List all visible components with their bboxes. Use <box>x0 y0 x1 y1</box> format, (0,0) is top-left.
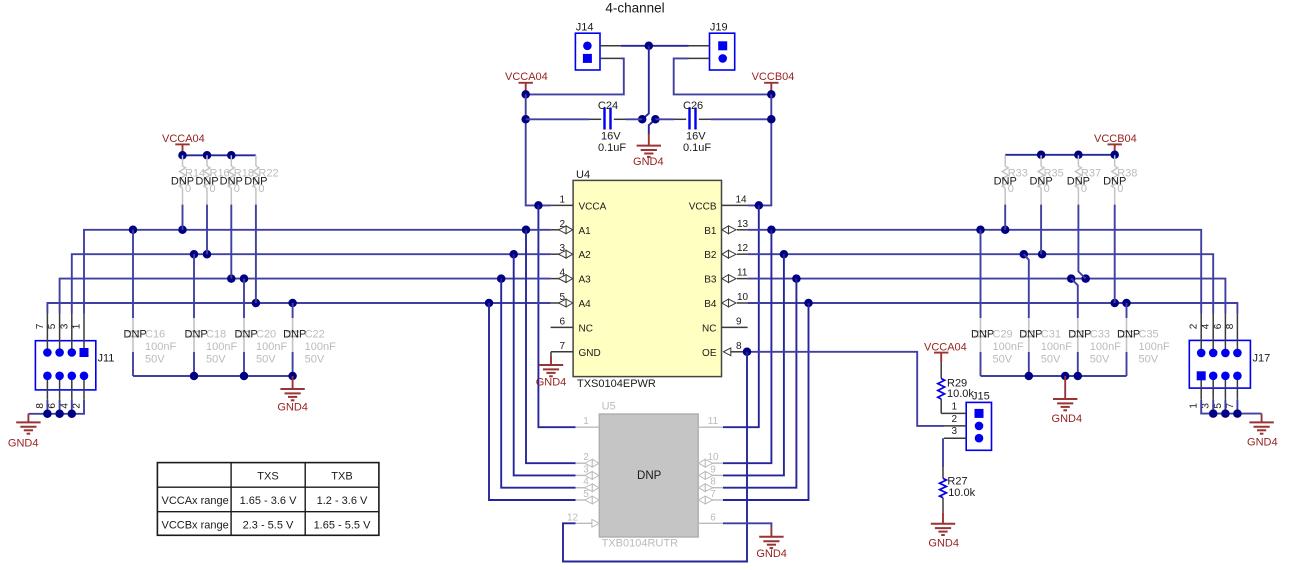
wire J15.3 to R27 <box>942 438 944 467</box>
ground GND4 (U4 pin7) <box>536 356 567 388</box>
svg-text:VCCBx range: VCCBx range <box>162 520 229 532</box>
wire J19.2 to VCCB04 <box>674 58 776 98</box>
svg-text:100nF: 100nF <box>256 341 287 353</box>
svg-text:8: 8 <box>1225 323 1236 329</box>
svg-text:100nF: 100nF <box>305 341 336 353</box>
wire R18 to line <box>230 205 232 279</box>
svg-text:DNP: DNP <box>235 328 258 340</box>
svg-text:DNP: DNP <box>1019 328 1042 340</box>
svg-text:J11: J11 <box>98 353 115 365</box>
svg-text:1.65 - 5.5 V: 1.65 - 5.5 V <box>314 520 372 532</box>
wire C29 lower <box>980 352 982 376</box>
wire C16 upper <box>132 230 134 318</box>
svg-text:14: 14 <box>736 194 748 205</box>
U5 pin 4 <box>576 477 599 492</box>
resistor R14 (DNP) <box>171 155 205 204</box>
svg-text:2: 2 <box>1189 323 1200 329</box>
U4 pin 4 A3 <box>551 268 592 286</box>
svg-text:5: 5 <box>47 323 58 329</box>
wire C35 lower <box>1126 352 1128 376</box>
svg-text:4: 4 <box>59 403 70 409</box>
U4 pin 10 B4 <box>704 292 748 310</box>
svg-text:DNP: DNP <box>185 328 208 340</box>
svg-text:C35: C35 <box>1139 328 1159 340</box>
svg-text:C31: C31 <box>1041 328 1061 340</box>
resistor R37 (DNP) <box>1067 155 1101 204</box>
svg-text:50V: 50V <box>1139 353 1159 365</box>
svg-text:6: 6 <box>710 512 716 523</box>
U4 pin 3 A2 <box>551 243 592 261</box>
ground GND4 (C24/C26) <box>633 134 664 169</box>
wire C20 lower <box>243 352 245 376</box>
svg-text:4: 4 <box>583 477 589 488</box>
svg-text:OE: OE <box>702 348 717 359</box>
svg-text:VCCA04: VCCA04 <box>505 71 548 83</box>
wire C18 upper <box>193 254 195 318</box>
ground GND4 (R27) <box>928 512 959 549</box>
capacitor C20 (DNP) <box>235 318 288 365</box>
svg-text:C22: C22 <box>305 328 325 340</box>
svg-text:11: 11 <box>708 416 719 427</box>
wire U4.7 to GND4 <box>550 352 552 356</box>
power VCCB04 (pull-up rail) <box>1094 133 1137 155</box>
svg-text:TXS0104EPWR: TXS0104EPWR <box>577 378 656 390</box>
svg-text:100nF: 100nF <box>1041 341 1072 353</box>
wire left capacitor ground rail <box>133 372 297 381</box>
svg-text:C18: C18 <box>206 328 226 340</box>
capacitor C29 (DNP) <box>971 318 1024 365</box>
svg-text:VCCA04: VCCA04 <box>924 341 967 353</box>
svg-text:C16: C16 <box>145 328 165 340</box>
ground GND4 (right capacitors) <box>1052 376 1083 425</box>
svg-text:12: 12 <box>567 512 579 523</box>
svg-text:C24: C24 <box>598 100 618 112</box>
svg-text:1: 1 <box>1189 403 1200 409</box>
svg-text:10: 10 <box>707 452 719 463</box>
power VCCA04 (pull-up rail) <box>162 133 205 155</box>
svg-text:B1: B1 <box>704 226 717 237</box>
svg-text:TXB: TXB <box>331 470 352 482</box>
svg-text:3: 3 <box>559 243 565 254</box>
U4 pin 7 GND <box>551 341 601 359</box>
wire VCCB to U5.11 <box>723 205 759 427</box>
svg-text:VCCA: VCCA <box>579 201 607 212</box>
wire C18 lower <box>193 352 195 376</box>
svg-text:DNP: DNP <box>1117 328 1140 340</box>
svg-text:J19: J19 <box>710 22 728 34</box>
wire VCCA to U5.1 <box>538 205 575 427</box>
connector J11 <box>35 314 115 409</box>
U4 pin 8 OE <box>702 341 743 359</box>
wire GND net vertical with jog through C24/C26 rail <box>638 46 660 135</box>
svg-text:50V: 50V <box>1041 353 1061 365</box>
svg-text:50V: 50V <box>1090 353 1110 365</box>
svg-text:16V: 16V <box>601 131 621 143</box>
wire right capacitor ground rail <box>981 372 1127 381</box>
svg-text:4: 4 <box>559 268 565 279</box>
resistor R18 (DNP) <box>220 155 254 204</box>
svg-text:0: 0 <box>1081 183 1087 195</box>
wire VCCA04 vertical to U4.1 <box>521 94 550 209</box>
wire VCCA04 pull-up rail <box>178 151 256 160</box>
wire A1 to U5.2 <box>526 230 576 463</box>
svg-text:1.65 - 3.6 V: 1.65 - 3.6 V <box>240 495 298 507</box>
resistor R16 (DNP) <box>195 155 229 204</box>
wire R37 to B3 <box>1078 205 1085 279</box>
svg-text:50V: 50V <box>993 353 1013 365</box>
svg-text:7: 7 <box>710 489 716 500</box>
svg-text:4: 4 <box>1201 323 1212 329</box>
svg-text:VCCB04: VCCB04 <box>1094 133 1137 145</box>
svg-text:C20: C20 <box>256 328 276 340</box>
wire A2 to U5.3 <box>514 254 576 475</box>
capacitor C16 (DNP) <box>124 318 177 365</box>
wire B3 to U5.8 <box>723 279 796 488</box>
resistor R29 10.0k <box>938 362 975 413</box>
resistor R38 (DNP) <box>1103 155 1137 204</box>
svg-text:J15: J15 <box>972 391 990 403</box>
svg-text:U5: U5 <box>602 401 616 413</box>
svg-text:3: 3 <box>951 426 957 437</box>
svg-text:12: 12 <box>737 243 749 254</box>
svg-text:9: 9 <box>736 316 742 327</box>
svg-text:7: 7 <box>35 323 46 329</box>
svg-text:GND4: GND4 <box>8 437 39 449</box>
svg-text:10.0k: 10.0k <box>948 487 975 499</box>
resistor R22 (DNP) <box>244 155 278 204</box>
U4 pin 2 A1 <box>551 219 592 237</box>
connector J15 <box>944 391 992 451</box>
wire VCCB04 pull-up rail <box>1005 151 1119 160</box>
svg-text:6: 6 <box>1213 323 1224 329</box>
ground GND4 (J17) <box>1247 414 1278 449</box>
svg-text:2.3 - 5.5 V: 2.3 - 5.5 V <box>243 520 294 532</box>
U4 pin 14 VCCB <box>689 194 748 212</box>
power VCCB04 (top) <box>752 71 795 94</box>
svg-text:8: 8 <box>35 403 46 409</box>
wire R14 to line <box>182 205 184 230</box>
wire C16 lower <box>132 352 134 376</box>
svg-text:5: 5 <box>583 489 589 500</box>
svg-text:0: 0 <box>1117 183 1123 195</box>
wire J17 ground rail <box>1201 400 1261 418</box>
svg-text:2: 2 <box>72 403 83 409</box>
IC U5 TXB0104RUTR body (DNP) <box>599 401 698 550</box>
U5 pin 6 <box>698 512 723 523</box>
capacitor C35 (DNP) <box>1117 318 1170 365</box>
title 4-channel <box>605 1 664 16</box>
svg-text:3: 3 <box>583 464 589 475</box>
svg-text:0: 0 <box>185 183 191 195</box>
svg-text:1: 1 <box>951 401 957 412</box>
wire A4 to U5.5 <box>489 303 576 500</box>
wire C22 lower <box>292 352 294 376</box>
wire C33 upper <box>1071 279 1078 318</box>
svg-text:5: 5 <box>1213 403 1224 409</box>
U5 pin 3 <box>576 464 599 479</box>
svg-text:GND4: GND4 <box>1247 436 1278 448</box>
svg-text:100nF: 100nF <box>206 341 237 353</box>
wire A3 to U5.4 <box>501 279 575 488</box>
U4 pin 13 B1 <box>704 219 748 237</box>
wire net B3 <box>748 274 1226 313</box>
U5 pin 12 <box>567 512 599 527</box>
svg-text:7: 7 <box>559 341 565 352</box>
svg-text:50V: 50V <box>256 353 276 365</box>
wire VCCA04 to C24 <box>526 118 589 120</box>
svg-text:0: 0 <box>210 183 216 195</box>
svg-text:4-channel: 4-channel <box>605 1 664 16</box>
connector J19 <box>689 22 735 71</box>
svg-text:50V: 50V <box>145 353 165 365</box>
wire OE net U4.8 to J15.2 <box>743 348 944 426</box>
svg-text:50V: 50V <box>206 353 226 365</box>
svg-text:5: 5 <box>559 292 565 303</box>
U5 pin 9 <box>699 464 723 479</box>
wire net A1 <box>84 226 551 314</box>
capacitor C24 <box>589 100 626 154</box>
wire C24 to GND junction <box>626 118 642 120</box>
resistor R35 (DNP) <box>1029 155 1063 204</box>
U5 pin 2 <box>576 452 599 467</box>
ground GND4 (left capacitors) <box>277 376 308 414</box>
svg-text:VCCA04: VCCA04 <box>162 133 205 145</box>
svg-text:100nF: 100nF <box>993 341 1024 353</box>
wire C29 upper <box>980 230 982 318</box>
svg-text:C33: C33 <box>1090 328 1110 340</box>
svg-text:DNP: DNP <box>1068 328 1091 340</box>
svg-text:C29: C29 <box>993 328 1013 340</box>
svg-text:U4: U4 <box>576 169 590 181</box>
svg-text:0.1uF: 0.1uF <box>598 142 626 154</box>
U4 pin 11 B3 <box>704 268 748 286</box>
wire net A2 <box>72 250 551 314</box>
op-amp U4 TXS0104EPWR body <box>573 169 721 390</box>
wire net B1 <box>748 226 1202 314</box>
U5 pin 11 <box>698 416 723 427</box>
svg-text:100nF: 100nF <box>1139 341 1170 353</box>
svg-text:100nF: 100nF <box>145 341 176 353</box>
svg-text:6: 6 <box>559 316 565 327</box>
svg-text:7: 7 <box>1225 403 1236 409</box>
wire C31 lower <box>1028 352 1030 376</box>
svg-text:NC: NC <box>579 323 593 334</box>
svg-text:3: 3 <box>1201 403 1212 409</box>
wire net B2 <box>748 250 1214 314</box>
capacitor C18 (DNP) <box>185 318 238 365</box>
wire C26 to VCCB04 <box>711 118 771 120</box>
wire net A4 <box>47 299 550 314</box>
svg-text:VCCB04: VCCB04 <box>752 71 795 83</box>
svg-text:TXS: TXS <box>257 470 278 482</box>
U5 pin 8 <box>699 477 723 492</box>
resistor R33 (DNP) <box>994 155 1028 204</box>
wire OE net down to U5.12 <box>563 352 747 562</box>
U4 pin 9 NC <box>702 316 748 334</box>
wire C22 upper <box>292 303 294 318</box>
svg-text:0: 0 <box>1044 183 1050 195</box>
wire R35 to B2 <box>1040 205 1042 255</box>
svg-text:2: 2 <box>559 219 565 230</box>
U5 pin 10 <box>699 452 723 467</box>
U5 pin 7 <box>699 489 723 504</box>
svg-text:50V: 50V <box>305 353 325 365</box>
wire R33 to B1 <box>1004 205 1006 230</box>
svg-text:8: 8 <box>710 477 716 488</box>
svg-text:B2: B2 <box>704 250 717 261</box>
svg-text:0.1uF: 0.1uF <box>683 142 711 154</box>
wire R38 to B4 <box>1114 205 1116 303</box>
svg-text:TXB0104RUTR: TXB0104RUTR <box>602 537 678 549</box>
wire C20 upper <box>243 279 245 318</box>
wire net A3 <box>60 274 551 313</box>
svg-text:C26: C26 <box>683 100 703 112</box>
wire U5.6 to ground <box>723 523 771 527</box>
svg-text:A3: A3 <box>579 275 592 286</box>
voltage range table <box>157 463 379 536</box>
svg-text:100nF: 100nF <box>1090 341 1121 353</box>
svg-text:GND4: GND4 <box>633 156 664 168</box>
svg-text:13: 13 <box>737 219 749 230</box>
svg-text:A2: A2 <box>579 250 592 261</box>
capacitor C31 (DNP) <box>1019 318 1072 365</box>
U5 pin 1 <box>576 416 600 427</box>
U4 pin 6 NC <box>551 316 593 334</box>
wire J14.2 to VCCA04 <box>521 58 623 98</box>
svg-text:R27: R27 <box>947 476 967 488</box>
wire C35 upper <box>1126 303 1128 318</box>
svg-text:1: 1 <box>583 416 589 427</box>
svg-text:B3: B3 <box>704 275 717 286</box>
svg-text:GND4: GND4 <box>756 548 787 560</box>
wire B4 to U5.7 <box>723 303 809 500</box>
wire B2 to U5.9 <box>723 254 784 475</box>
svg-text:11: 11 <box>737 268 748 279</box>
svg-text:6: 6 <box>47 403 58 409</box>
U4 pin 1 VCCA <box>551 194 607 212</box>
U4 pin 5 A4 <box>551 292 592 310</box>
svg-text:DNP: DNP <box>283 328 306 340</box>
svg-text:J17: J17 <box>1253 353 1271 365</box>
wire J11 ground rail <box>28 400 84 418</box>
capacitor C26 <box>674 100 711 154</box>
svg-text:VCCB: VCCB <box>689 201 717 212</box>
svg-text:VCCAx range: VCCAx range <box>162 495 229 507</box>
svg-text:16V: 16V <box>686 131 706 143</box>
svg-text:10: 10 <box>737 292 749 303</box>
svg-text:9: 9 <box>710 464 716 475</box>
wire J14.1 to J19.1 (GND net) <box>621 42 689 51</box>
svg-text:DNP: DNP <box>637 470 662 482</box>
wire net B4 <box>748 299 1238 314</box>
wire R29 to J15.1 <box>941 412 944 414</box>
svg-text:GND4: GND4 <box>1052 413 1083 425</box>
svg-text:1: 1 <box>559 194 565 205</box>
wire C33 lower <box>1077 352 1079 376</box>
wire VCCB04 vertical to U4.14 <box>748 94 776 209</box>
svg-text:0: 0 <box>234 183 240 195</box>
wire R16 to line <box>206 205 208 255</box>
svg-text:DNP: DNP <box>124 328 147 340</box>
connector J17 <box>1189 314 1271 409</box>
svg-text:NC: NC <box>702 323 716 334</box>
svg-text:2: 2 <box>583 452 589 463</box>
svg-text:10.0k: 10.0k <box>947 388 974 400</box>
svg-text:DNP: DNP <box>971 328 994 340</box>
wire R22 to line <box>255 205 257 303</box>
svg-text:A4: A4 <box>579 299 592 310</box>
svg-text:GND4: GND4 <box>536 376 567 388</box>
svg-text:J14: J14 <box>576 22 594 34</box>
svg-text:A1: A1 <box>579 226 592 237</box>
wire B1 to U5.10 <box>723 230 771 463</box>
resistor R27 10.0k <box>940 467 976 512</box>
svg-text:2: 2 <box>951 414 957 425</box>
U4 pin 12 B2 <box>704 243 748 261</box>
power VCCA04 (R29) <box>924 341 967 362</box>
svg-text:B4: B4 <box>704 299 717 310</box>
svg-text:0: 0 <box>258 183 264 195</box>
svg-text:3: 3 <box>59 323 70 329</box>
capacitor C22 (DNP) <box>283 318 336 365</box>
U5 pin 5 <box>576 489 599 504</box>
ground GND4 (U5 pin6) <box>756 527 787 560</box>
svg-text:GND4: GND4 <box>928 537 959 549</box>
svg-text:1: 1 <box>72 323 83 329</box>
svg-text:GND4: GND4 <box>277 402 308 414</box>
ground GND4 (J11) <box>8 414 41 450</box>
wire GND junction to C26 <box>655 118 674 120</box>
connector J14 <box>575 22 621 71</box>
wire C31 upper <box>1024 254 1029 318</box>
svg-text:0: 0 <box>1008 183 1014 195</box>
svg-text:8: 8 <box>736 341 742 352</box>
svg-text:1.2 - 3.6 V: 1.2 - 3.6 V <box>317 495 368 507</box>
capacitor C33 (DNP) <box>1068 318 1121 365</box>
power VCCA04 (top) <box>505 71 548 94</box>
svg-text:GND: GND <box>579 348 601 359</box>
